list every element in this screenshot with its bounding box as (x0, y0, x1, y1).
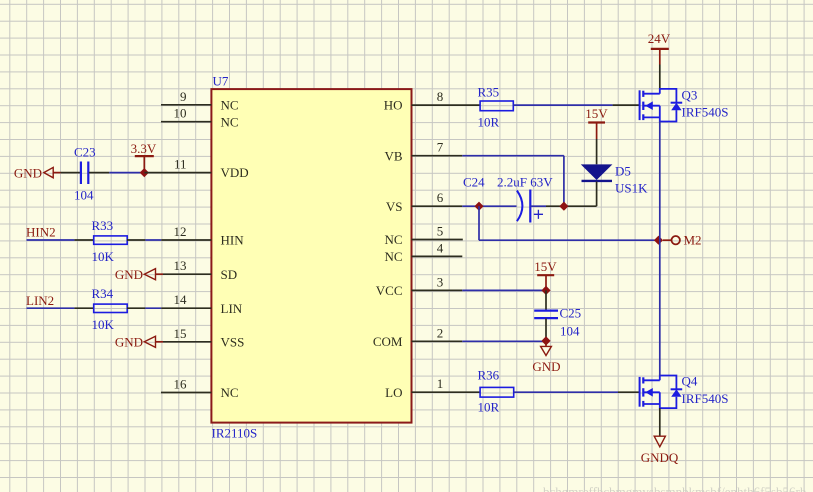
svg-text:HO: HO (384, 98, 403, 113)
power port 3.3V (131, 141, 157, 172)
wire COM net (462, 340, 546, 342)
svg-text:HIN2: HIN2 (26, 225, 56, 240)
junction VB/D5/C24 (559, 202, 568, 211)
svg-text:C25: C25 (560, 306, 582, 321)
wire pin 6 stub (412, 205, 463, 207)
pin 16 label NC (174, 377, 239, 401)
op-amp U7 IR2110S body (211, 74, 411, 441)
svg-text:VB: VB (384, 148, 402, 163)
svg-text:C24: C24 (463, 175, 485, 190)
svg-text:4: 4 (437, 240, 444, 255)
wire VS down (478, 206, 480, 240)
svg-text:10: 10 (174, 106, 187, 121)
wire 24V to Q3 drain (659, 65, 661, 90)
transistor Q4 IRF540S (640, 374, 729, 409)
wire 15V to D5 (596, 139, 598, 164)
wire Q4 source (659, 408, 661, 436)
svg-text:R36: R36 (478, 368, 500, 383)
svg-text:2.2uF 63V: 2.2uF 63V (497, 175, 553, 190)
power port GND (SD) (115, 267, 163, 282)
svg-text:bchgmreffhcbmgmvsbsmnbkmsbf/en: bchgmreffhcbmgmvsbsmnbkmsbf/enhth6f5sb56… (543, 484, 807, 492)
pin 9 label NC (180, 89, 239, 113)
svg-text:M2: M2 (684, 233, 702, 248)
power port GND (left) (14, 165, 61, 180)
svg-text:VSS: VSS (221, 334, 245, 349)
svg-text:104: 104 (560, 324, 580, 339)
pin 1 label LO (385, 376, 443, 400)
pin 10 label NC (174, 106, 239, 130)
svg-text:IR2110S: IR2110S (212, 426, 258, 441)
wire pin 2 stub (412, 340, 463, 342)
wire M2 rail (479, 239, 659, 241)
wire VS net (462, 205, 516, 207)
pin 9 wire (161, 104, 211, 106)
svg-text:15V: 15V (585, 106, 608, 121)
svg-text:VDD: VDD (221, 165, 249, 180)
svg-text:15V: 15V (534, 259, 557, 274)
diode D5 US1K (581, 164, 648, 207)
pin 13 label SD (174, 258, 238, 282)
svg-text:VCC: VCC (376, 283, 403, 298)
svg-text:2: 2 (437, 325, 444, 340)
wire pin 3 stub (412, 289, 463, 291)
wire pin 15 stub (163, 341, 211, 343)
wire VCC net (462, 289, 546, 291)
svg-text:D5: D5 (615, 164, 631, 179)
svg-text:GND: GND (532, 359, 560, 374)
svg-text:10R: 10R (478, 115, 500, 130)
power port 24V (648, 31, 671, 64)
svg-text:9: 9 (180, 89, 187, 104)
resistor R34 10K (74, 286, 145, 332)
svg-text:NC: NC (221, 114, 239, 129)
svg-text:10K: 10K (92, 249, 115, 264)
svg-text:3: 3 (437, 274, 444, 289)
svg-text:C23: C23 (74, 145, 96, 160)
pin 11 label VDD (174, 157, 249, 181)
junction VDD/3.3V (140, 168, 149, 177)
wire pin 14 stub (161, 307, 211, 309)
power port 15V (VCC) (534, 259, 557, 290)
pin 14 label LIN (174, 292, 243, 316)
pin 5 label NC (384, 224, 443, 248)
svg-text:1: 1 (437, 376, 444, 391)
pin 4 label NC (384, 240, 443, 264)
svg-text:15: 15 (174, 326, 187, 341)
svg-text:GND: GND (115, 335, 143, 350)
svg-text:6: 6 (437, 190, 444, 205)
pin 10 wire (161, 121, 211, 123)
svg-text:LO: LO (385, 385, 402, 400)
svg-text:24V: 24V (648, 31, 671, 46)
junction VS (474, 202, 483, 211)
svg-text:LIN: LIN (221, 301, 243, 316)
wire C24 to junction (546, 205, 597, 207)
wire VDD net (109, 172, 144, 174)
pin 6 label VS (386, 190, 444, 214)
pin 12 label HIN (174, 224, 245, 248)
svg-text:10K: 10K (92, 317, 115, 332)
junction COM/GND (541, 336, 550, 345)
wire LIN2 net (27, 307, 75, 309)
svg-text:IRF540S: IRF540S (682, 105, 729, 120)
power port GND (COM) (532, 341, 560, 374)
svg-text:R33: R33 (92, 218, 114, 233)
wire pin 13 stub (163, 273, 211, 275)
svg-text:SD: SD (221, 267, 238, 282)
svg-text:NC: NC (384, 249, 402, 264)
svg-text:3.3V: 3.3V (131, 141, 157, 156)
wire R33 to pin 12 (145, 239, 161, 241)
svg-text:Q3: Q3 (682, 88, 698, 103)
junction M2 (654, 236, 663, 245)
svg-text:HIN: HIN (221, 233, 245, 248)
wire HIN2 net (27, 239, 75, 241)
wire Q3 source to Q4 drain (659, 122, 661, 376)
svg-text:COM: COM (373, 334, 403, 349)
capacitor C23 104 (61, 145, 110, 203)
pin 2 label COM (373, 325, 443, 349)
svg-text:13: 13 (174, 258, 187, 273)
wire pin 8 stub (412, 104, 481, 106)
svg-text:US1K: US1K (615, 181, 648, 196)
wire pin 16 stub (161, 392, 211, 394)
junction VCC/15V (541, 286, 550, 295)
node M2 (663, 233, 702, 248)
svg-text:LIN2: LIN2 (26, 293, 54, 308)
svg-text:GND: GND (14, 165, 42, 180)
pin 15 label VSS (174, 326, 245, 350)
svg-text:12: 12 (174, 224, 187, 239)
wire pin 7 stub (412, 155, 463, 157)
svg-text:IRF540S: IRF540S (682, 391, 729, 406)
wire pin 5 stub (412, 239, 463, 241)
svg-text:U7: U7 (213, 74, 229, 89)
pin 7 label VB (384, 140, 443, 164)
pin 3 label VCC (376, 274, 443, 298)
svg-text:VS: VS (386, 199, 403, 214)
wire gate lead Q4 (618, 391, 640, 393)
resistor R36 10R (478, 368, 514, 415)
svg-text:14: 14 (174, 292, 188, 307)
pin 8 label HO (384, 89, 444, 113)
svg-text:NC: NC (384, 232, 402, 247)
resistor R35 10R (478, 85, 514, 130)
svg-text:Q4: Q4 (682, 374, 698, 389)
resistor R33 10K (74, 218, 145, 264)
wire R35 to Q3 gate (513, 104, 612, 106)
svg-text:R35: R35 (478, 85, 500, 100)
svg-text:NC: NC (221, 97, 239, 112)
svg-text:GNDQ: GNDQ (641, 450, 679, 465)
wire pin 12 stub (161, 239, 211, 241)
svg-text:10R: 10R (478, 400, 500, 415)
wire pin 1 stub (412, 391, 481, 393)
power port GNDQ (641, 436, 679, 465)
svg-text:GND: GND (115, 267, 143, 282)
svg-text:5: 5 (437, 224, 444, 239)
wire VB net (462, 155, 564, 157)
wire gate lead Q3 (613, 104, 640, 106)
transistor Q3 IRF540S (640, 88, 729, 122)
svg-text:7: 7 (437, 140, 444, 155)
wire R34 to pin 14 (145, 307, 161, 309)
svg-text:16: 16 (174, 377, 188, 392)
wire VB down (563, 156, 565, 207)
svg-text:NC: NC (221, 385, 239, 400)
power port 15V (VB) (585, 106, 608, 139)
power port GND (VSS) (115, 335, 163, 350)
wire junction to pin 11 (144, 172, 211, 174)
capacitor C24 2.2uF 63V (463, 175, 553, 223)
wire R36 to Q4 gate (514, 391, 618, 393)
svg-text:8: 8 (437, 89, 444, 104)
wire pin 4 stub (412, 255, 463, 257)
svg-text:R34: R34 (92, 286, 114, 301)
svg-text:104: 104 (74, 188, 94, 203)
capacitor C25 104 (534, 290, 581, 341)
svg-text:11: 11 (174, 157, 187, 172)
